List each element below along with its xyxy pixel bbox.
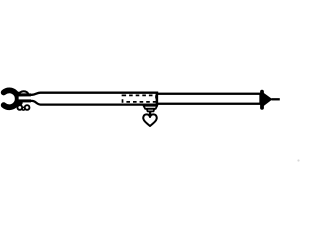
wing nut stem (149, 111, 151, 116)
clamp body block (15, 92, 23, 106)
C-clamp ring (4, 90, 18, 107)
clamp jaw bars (18, 93, 32, 96)
wing bump on clamp (19, 91, 28, 94)
clamp collar (lower) (147, 109, 155, 112)
clamp collar (upper) (144, 106, 158, 109)
wing nut (heart shaped) (143, 114, 157, 126)
inner tube hidden end (dashed) (123, 95, 157, 102)
outer tube end cap (156, 92, 158, 106)
outer tube with neck (18, 93, 158, 105)
inner tube (157, 94, 261, 104)
spike cone (264, 93, 273, 106)
spike pin (272, 98, 280, 100)
spike stop disc (260, 92, 264, 108)
wing loops under clamp (22, 107, 25, 110)
scan speck (297, 159, 299, 161)
